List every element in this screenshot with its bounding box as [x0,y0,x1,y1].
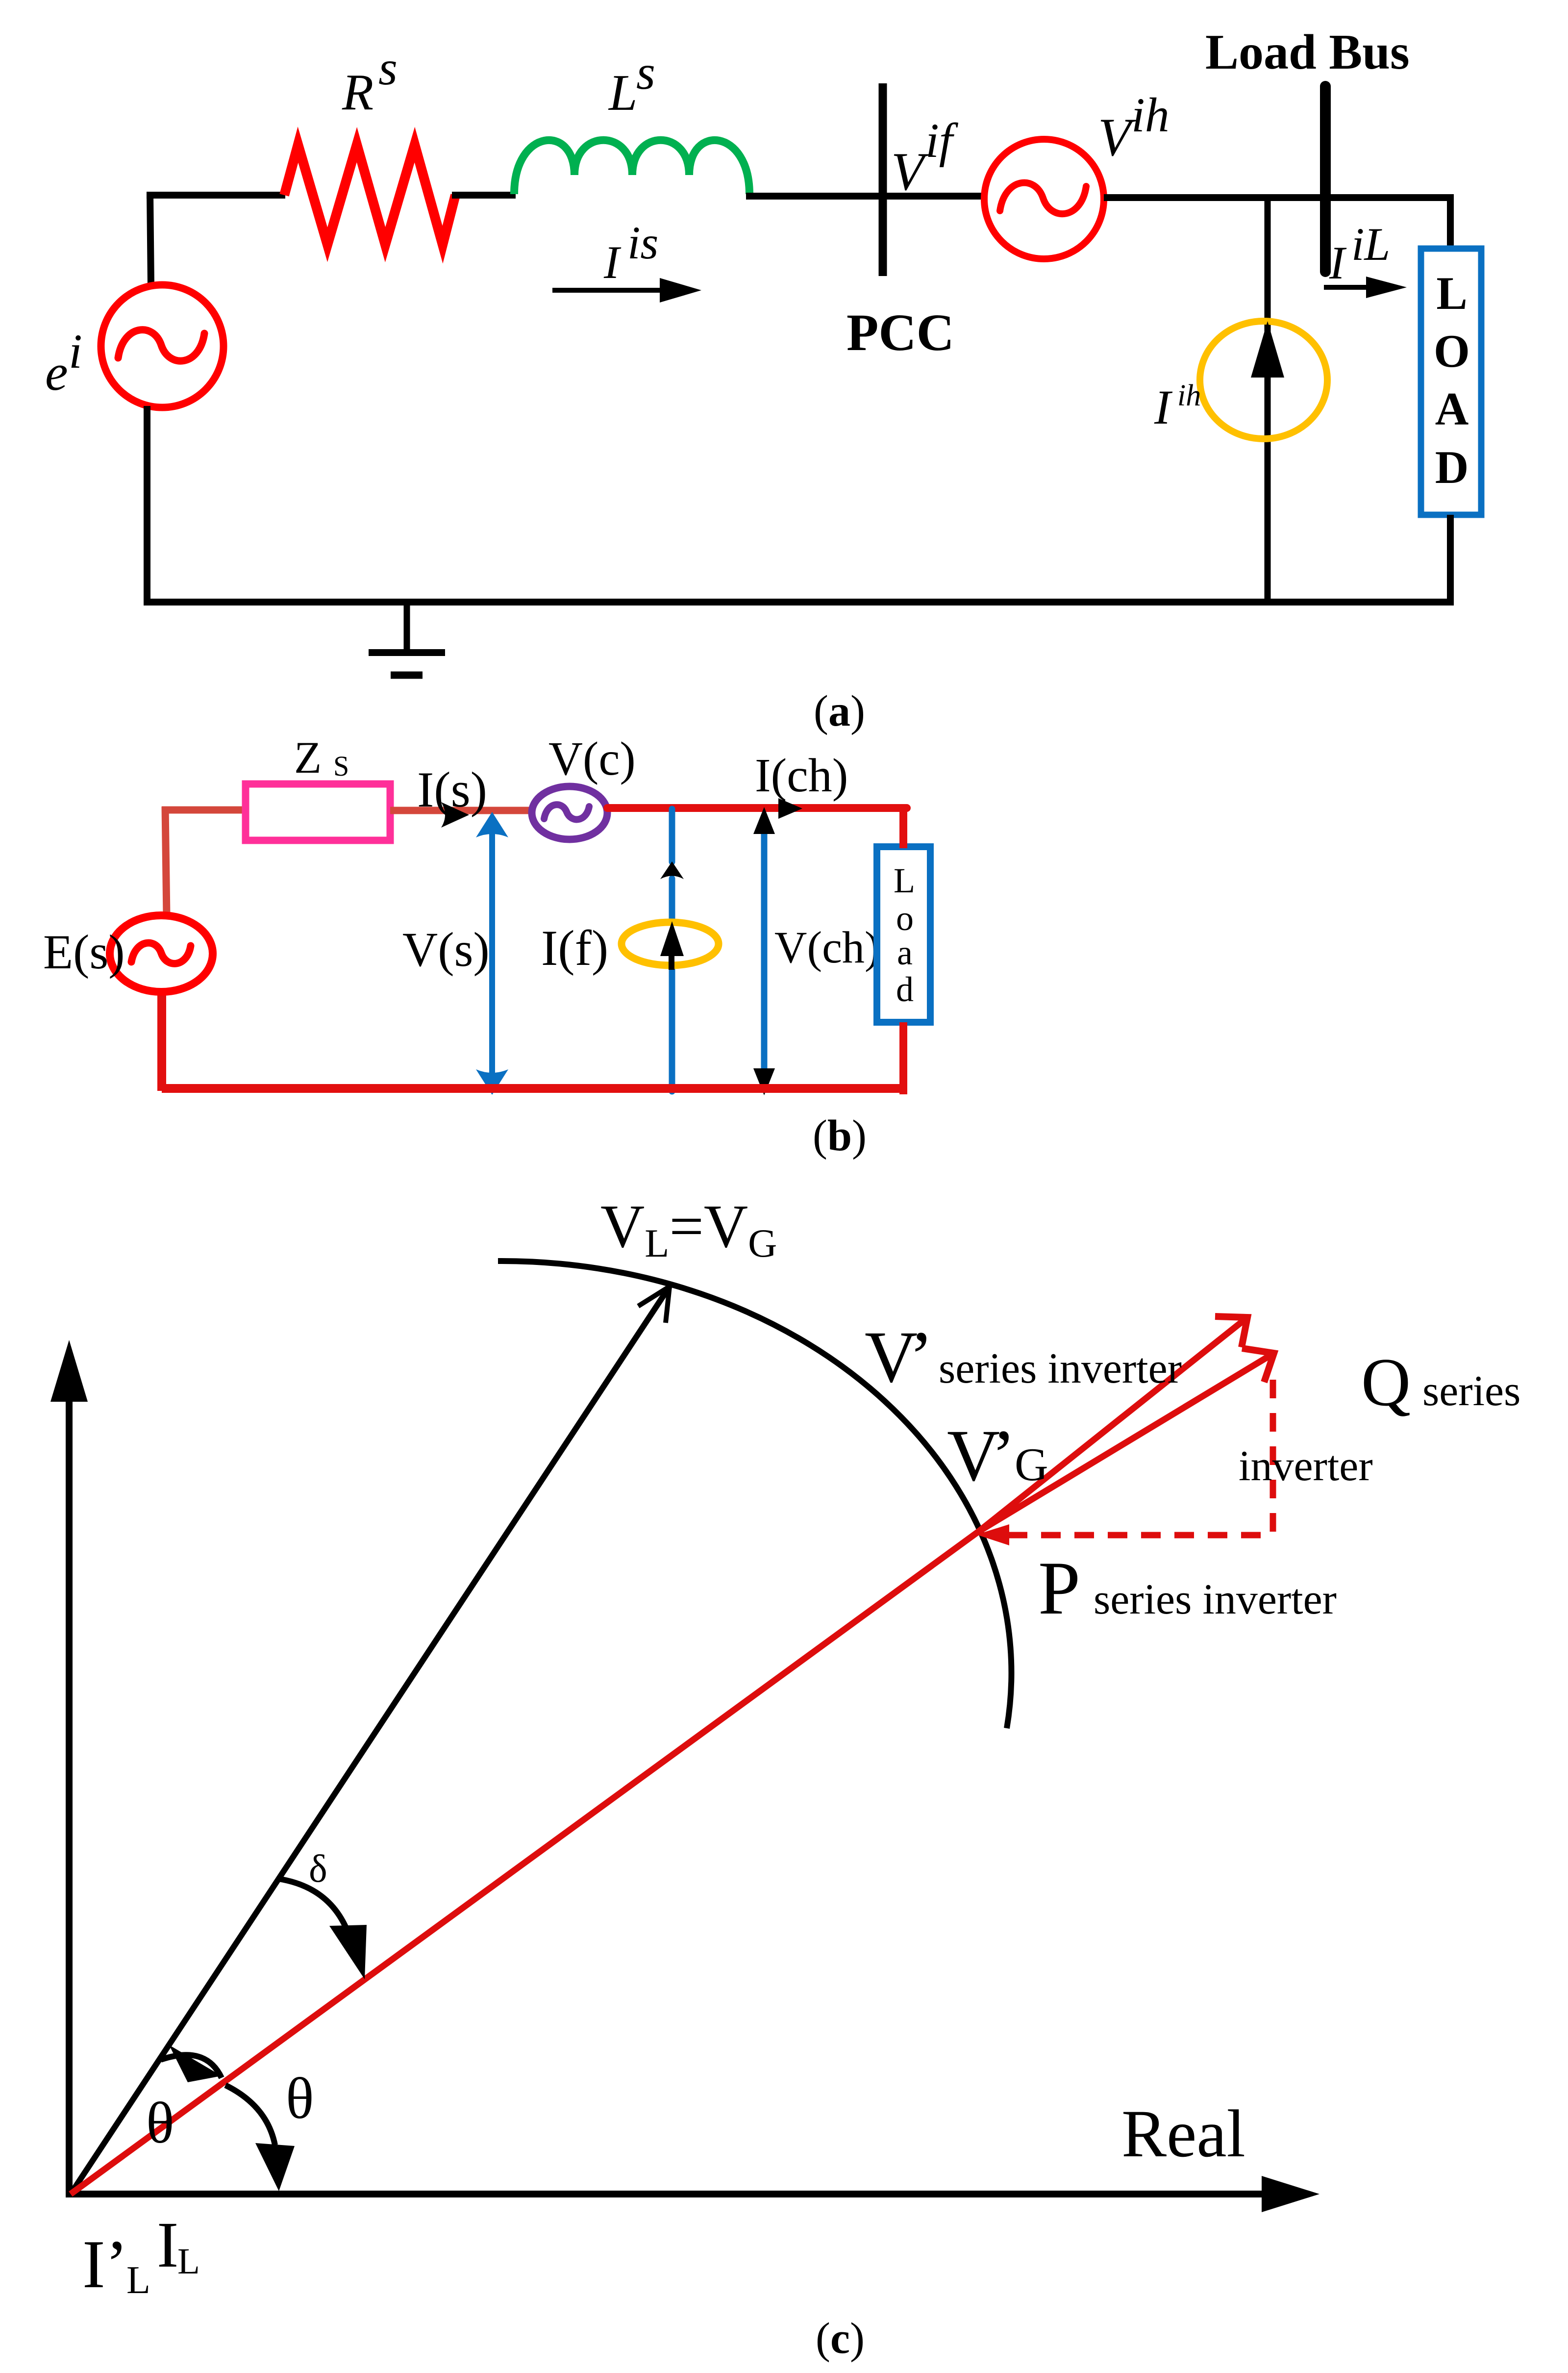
svg-text:V(ch): V(ch) [774,922,880,972]
svg-text:L: L [126,2259,150,2302]
svg-text:I: I [603,236,622,288]
red arrow V'G [978,1348,1274,1532]
svg-text:L: L [608,64,637,121]
svg-text:series inverter: series inverter [1094,1576,1337,1623]
svg-text:V(c): V(c) [548,732,636,785]
arc VL=VG [498,1261,1011,1728]
svg-text:P: P [1038,1546,1080,1630]
Load box (b) [877,847,930,1022]
svg-text:I: I [1329,237,1347,289]
E(s) sine [131,943,191,963]
svg-text:a: a [897,933,913,972]
svg-text:s: s [378,41,398,95]
AC source Vih circle [984,139,1104,259]
delta angle arc [278,1879,346,1928]
svg-text:Z: Z [294,732,322,783]
small black arrowhead on I(f) line [660,861,684,879]
red wire E(s) down [157,992,166,1091]
svg-text:S: S [333,750,349,782]
ground stem [404,602,410,653]
V(ch) arrow blue shaft [761,831,768,1071]
svg-text:L: L [177,2241,200,2282]
red dashed vertical Q [1270,1380,1276,1535]
svg-text:R: R [342,63,373,121]
impedance box Zs [246,784,390,840]
svg-text:(b): (b) [813,1111,867,1160]
e^i sine [118,330,204,361]
arrow IiL [1324,277,1407,298]
wire down to LOAD box [1447,194,1454,250]
I(f) arrow [660,921,684,970]
wire LOAD bottom to bottom wire [1447,515,1454,606]
red wire Load bottom to bottom wire [899,1022,907,1094]
wire between resistor and inductor [452,192,516,199]
svg-text:L: L [1436,267,1467,319]
svg-text:θ: θ [286,2066,314,2131]
E(s) source [110,915,213,992]
svg-text:G: G [1015,1439,1048,1490]
Load Bus bar [1320,86,1331,272]
svg-text:series inverter: series inverter [939,1345,1182,1392]
svg-text:O: O [1434,325,1470,377]
blue branch line I(f) [669,809,675,1091]
source V(c) [532,786,607,839]
current source Iih circle [1200,321,1327,439]
wire below e^i [144,406,150,606]
inductor Ls [514,140,749,194]
arrowhead I(ch) [778,798,802,819]
svg-text:e: e [45,344,68,401]
e^i source circle [101,285,224,407]
theta1 arc [161,2055,222,2078]
svg-text:I(ch): I(ch) [755,749,848,802]
svg-text:L: L [894,861,915,900]
theta2 arc [225,2085,275,2145]
salmon wire box to V(c) [390,807,532,814]
svg-text:(c): (c) [816,2314,865,2363]
svg-text:(a): (a) [814,687,865,735]
VL arrowhead barbs [638,1287,670,1323]
theta2 arrowhead [255,2143,295,2191]
wire top-left horizontal [147,192,285,199]
svg-text:δ: δ [309,1847,327,1891]
vertical axis [66,1397,73,2197]
horizontal axis [66,2191,1265,2197]
Iih arrow head [1251,321,1284,378]
V(s) double arrow blue [476,812,508,1095]
svg-text:ih: ih [1177,379,1201,412]
wire left vertical to source top [150,193,151,286]
svg-text:Load Bus: Load Bus [1205,25,1410,80]
svg-text:V’: V’ [947,1415,1009,1496]
I(f) source ellipse [622,922,719,965]
svg-text:A: A [1435,383,1469,435]
LOAD text [1434,267,1470,493]
PCC bus bar [879,83,887,276]
arrow Iis [552,278,701,303]
theta1 arrowhead [169,2045,222,2082]
red arrow V' series inverter [978,1316,1247,1532]
red dashed horizontal P [1008,1532,1274,1539]
svg-text:Real: Real [1121,2096,1245,2171]
ground bar 2 [391,672,423,679]
salmon wire top-left [162,807,248,814]
svg-text:V: V [891,142,929,202]
horizontal axis arrowhead [1262,2176,1319,2212]
svg-text:ih: ih [1131,88,1170,142]
red wire corner down to Load top [899,805,907,848]
wire Vih to load corner [1104,194,1454,201]
svg-text:o: o [896,899,914,938]
V(ch) black arrowheads [753,807,775,834]
ground bar 1 [369,649,445,656]
wire inductor to PCC and Vih [746,193,984,200]
svg-text:I: I [1154,380,1173,434]
svg-text:I(f): I(f) [541,920,608,976]
svg-text:V’: V’ [865,1316,926,1398]
svg-text:I’: I’ [82,2226,128,2302]
Load text [894,861,915,1009]
svg-text:iL: iL [1351,218,1390,270]
svg-text:D: D [1435,441,1469,493]
black vector VL [71,1287,670,2194]
svg-text:E(s): E(s) [43,925,125,979]
red line IL' [71,1532,978,2194]
svg-text:PCC: PCC [846,304,954,362]
salmon wire left vertical [165,807,167,917]
Vih sine [1000,183,1086,214]
svg-text:V(s): V(s) [402,922,490,977]
wire junction down to Iih source [1265,194,1271,602]
LOAD box [1421,249,1481,515]
svg-text:θ: θ [146,2090,174,2155]
svg-text:d: d [896,970,914,1009]
V(c) sine [544,805,589,819]
svg-text:inverter: inverter [1239,1442,1373,1490]
resistor Rs [284,145,455,245]
red arrowhead P pointing left [976,1524,1009,1545]
bottom wire [144,599,1454,606]
svg-text:i: i [69,324,82,379]
svg-text:Q: Q [1361,1344,1411,1420]
small arrow on wire after I(s) [441,802,469,828]
svg-text:I: I [157,2208,178,2281]
svg-text:V: V [1098,107,1136,167]
vertical axis arrowhead [50,1340,88,1402]
bottom red wire [162,1084,907,1093]
red wire V(c) to corner [607,804,907,812]
svg-text:series: series [1422,1367,1520,1415]
delta arrowhead [329,1925,367,1979]
svg-text:is: is [627,217,658,269]
svg-text:s: s [636,45,655,100]
